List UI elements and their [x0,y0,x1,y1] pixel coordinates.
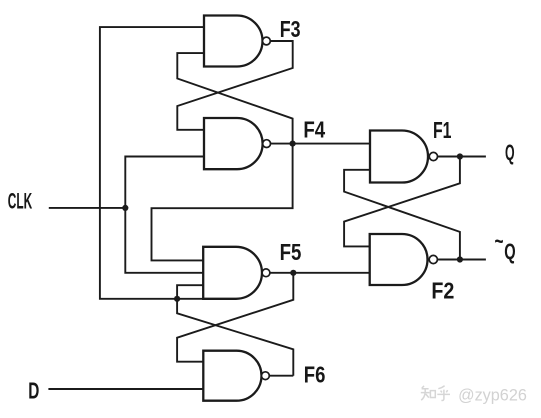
svg-text:Q: Q [505,140,515,165]
svg-text:F1: F1 [433,117,452,143]
svg-text:~: ~ [495,228,504,254]
svg-text:CLK: CLK [8,188,32,213]
svg-text:@zyp626: @zyp626 [458,387,527,405]
svg-text:F3: F3 [280,16,301,42]
svg-text:Q: Q [504,239,515,264]
svg-text:F2: F2 [431,277,454,303]
svg-text:D: D [28,377,39,403]
svg-text:F5: F5 [280,239,302,265]
svg-text:F4: F4 [303,117,325,143]
svg-text:F6: F6 [304,362,326,388]
